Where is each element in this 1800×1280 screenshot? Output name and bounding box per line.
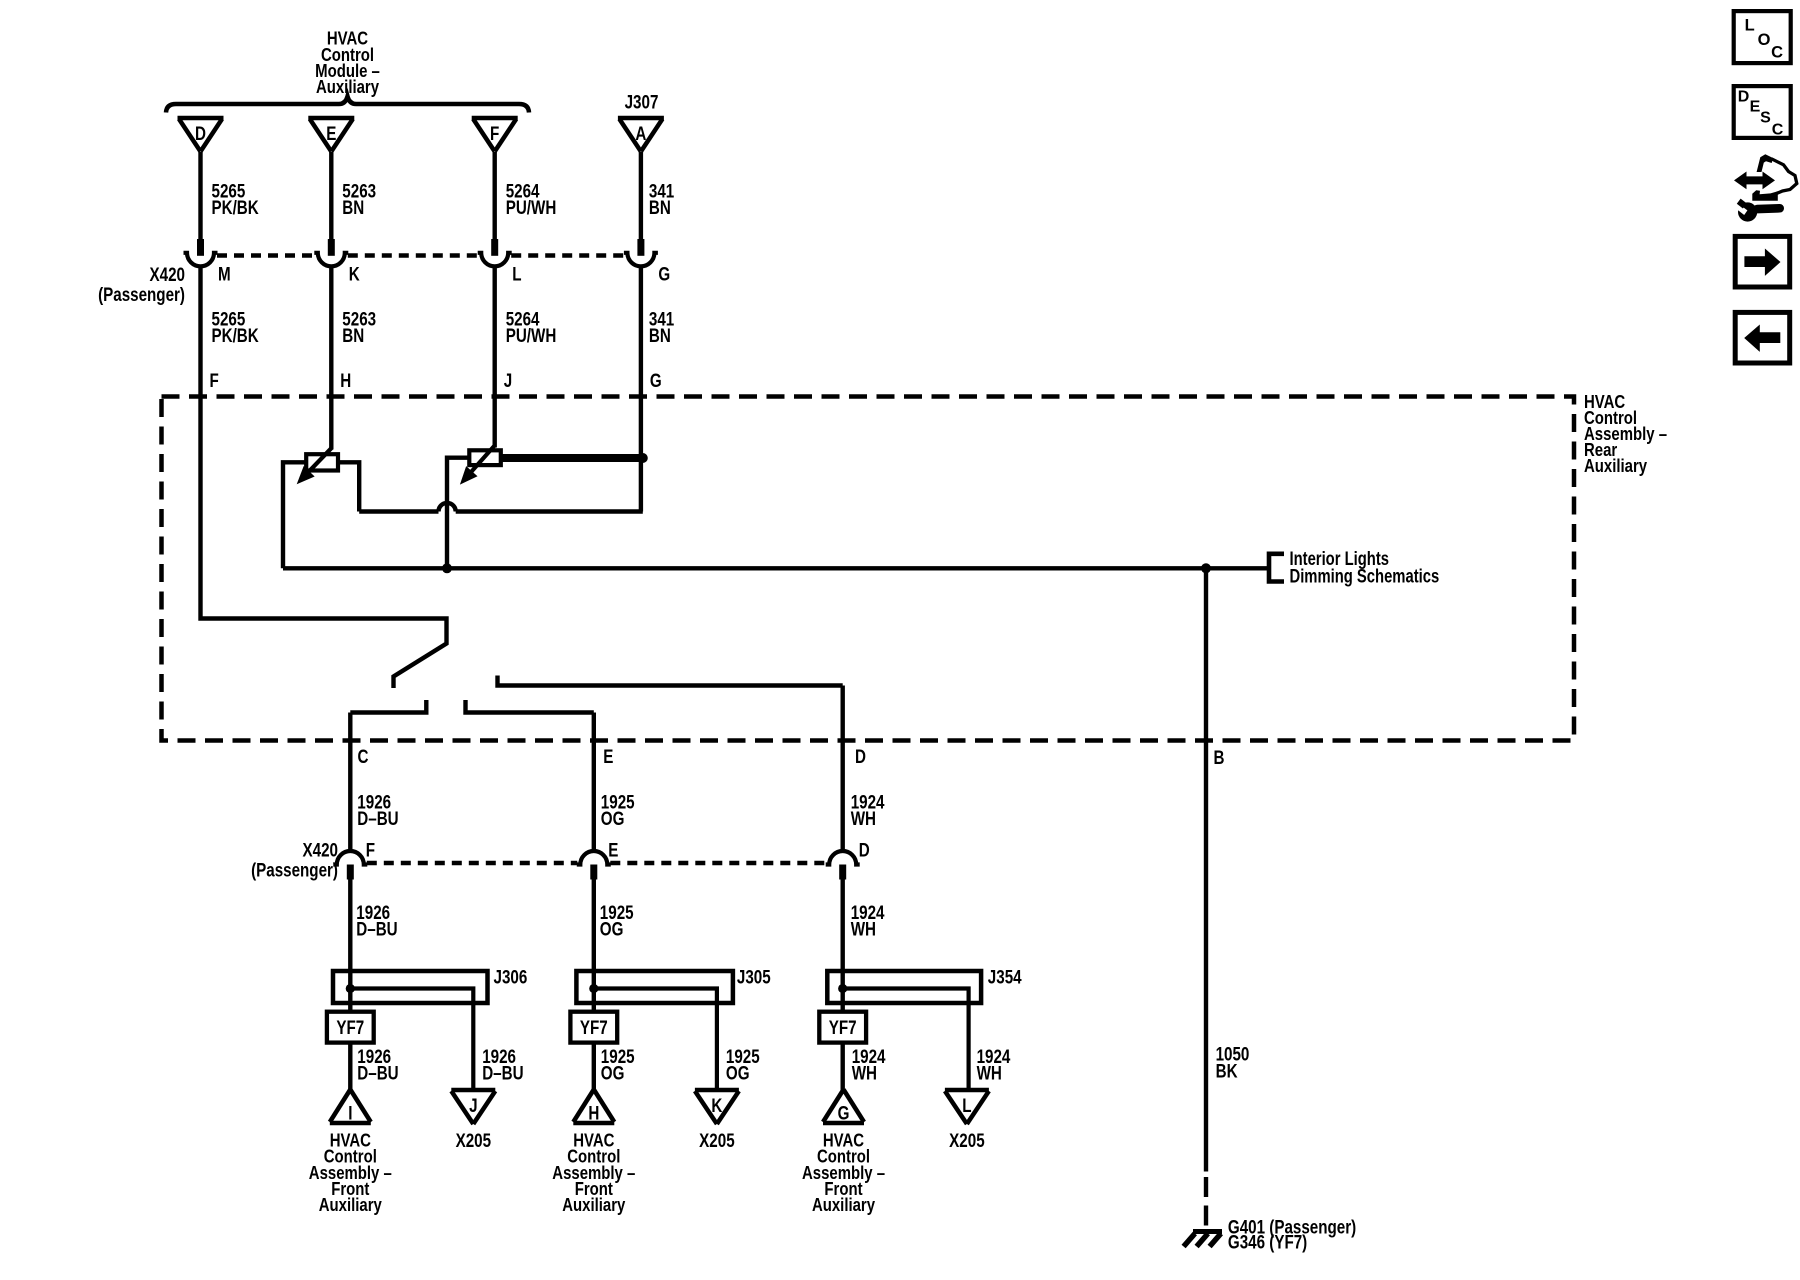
svg-text:H: H [340,369,351,391]
connector X420 lower dashed tie line [367,861,578,865]
wire inside box from pin F [201,397,447,689]
terminal triangle K lower [695,1090,739,1124]
svg-text:X205: X205 [949,1129,985,1151]
svg-text:G: G [658,263,670,285]
junction dot G feed [638,453,648,463]
wire rheostat left to bus [283,462,306,568]
svg-text:BN: BN [649,324,671,346]
svg-text:X205: X205 [699,1129,735,1151]
main wire through J306 [348,971,352,1012]
svg-text:C: C [1771,44,1783,62]
wire 341 BN from A [639,152,643,240]
junction dot B wire [1201,563,1211,573]
splice box J305 [576,971,733,1003]
splice branch wire J354 [843,989,969,1090]
terminal triangle I [330,1090,371,1124]
svg-text:WH: WH [977,1062,1002,1084]
svg-text:YF7: YF7 [580,1016,608,1038]
wire C fan-out [350,700,426,713]
svg-text:OG: OG [726,1062,750,1084]
svg-text:D–BU: D–BU [482,1062,523,1084]
svg-text:E: E [603,745,613,767]
svg-text:K: K [349,263,360,285]
splice box J354 [827,971,981,1003]
svg-text:X420: X420 [303,839,338,861]
svg-text:C: C [1772,121,1784,138]
svg-text:Auxiliary: Auxiliary [812,1195,876,1216]
svg-text:F: F [366,839,375,861]
icon back arrow box [1735,312,1790,363]
wire 1925 to splice [592,879,596,971]
svg-text:BK: BK [1216,1060,1238,1082]
icon repair wrench with arrows [1734,154,1797,221]
option box YF7 [327,1012,374,1043]
svg-text:A: A [635,122,646,144]
svg-text:L: L [962,1094,971,1116]
wire below YF7 [348,1043,352,1090]
svg-text:Dimming Schematics: Dimming Schematics [1290,566,1440,587]
svg-text:Auxiliary: Auxiliary [562,1195,626,1216]
wire from pin G [639,397,643,512]
svg-text:E: E [1750,99,1761,116]
connector X420 terminal L [478,239,512,266]
svg-text:E: E [326,122,336,144]
svg-text:PK/BK: PK/BK [212,324,260,346]
connector X420 terminal K [314,239,348,266]
HVAC Control Assembly Rear Auxiliary dashed box [162,397,1575,741]
svg-text:J305: J305 [737,966,771,988]
junction dot in J306 [346,984,355,993]
main wire through J354 [841,971,845,1012]
svg-text:B: B [1214,746,1225,768]
rheostat element right [469,450,501,465]
svg-text:(Passenger): (Passenger) [251,859,338,881]
wire 5264 PU/WH from F [493,152,497,240]
icon forward arrow box [1735,236,1790,287]
svg-text:OG: OG [601,1062,625,1084]
wire from pin H to rheostat [329,397,333,450]
svg-text:OG: OG [600,918,624,940]
junction dot dimming bus [442,563,452,573]
wire 341 BN lower [639,266,643,396]
wire below YF7 [841,1043,845,1090]
svg-text:D: D [195,122,206,144]
svg-text:E: E [608,839,618,861]
wire below YF7 [592,1043,596,1090]
svg-text:BN: BN [342,324,364,346]
svg-text:WH: WH [851,918,876,940]
svg-text:G346 (YF7): G346 (YF7) [1228,1231,1307,1253]
wire 5264 PU/WH lower [493,266,497,396]
wire 5263 BN from E [329,152,333,240]
svg-text:J: J [504,369,512,391]
wire 5265 PK/BK lower [198,266,202,396]
svg-text:Auxiliary: Auxiliary [1584,456,1648,477]
svg-text:X205: X205 [456,1129,492,1151]
wire E fan-out [466,700,594,713]
svg-text:YF7: YF7 [829,1016,857,1038]
wire 1924 to splice [841,879,845,971]
svg-text:WH: WH [851,807,876,829]
svg-text:PK/BK: PK/BK [212,196,260,218]
svg-text:L: L [512,263,521,285]
svg-text:PU/WH: PU/WH [506,196,557,218]
option box YF7 [819,1012,866,1043]
svg-text:D–BU: D–BU [356,918,397,940]
rheostat element left [306,454,338,470]
svg-text:G: G [838,1102,850,1124]
svg-text:D: D [1738,89,1750,106]
svg-text:H: H [588,1102,599,1124]
connector X420 lower terminal D [826,851,860,879]
wire D fan-out [498,676,843,686]
svg-text:D–BU: D–BU [357,1062,398,1084]
splice branch wire J306 [350,989,473,1090]
connector X420 terminal G [624,239,658,266]
terminal triangle J lower [451,1090,495,1124]
wire B down [1204,568,1208,1171]
svg-text:G: G [650,369,662,391]
svg-text:O: O [1758,31,1771,49]
svg-text:K: K [711,1094,722,1116]
svg-text:I: I [348,1102,352,1124]
svg-text:X420: X420 [150,263,185,285]
bracket interior lights dimming [1269,554,1284,582]
svg-text:PU/WH: PU/WH [506,324,557,346]
terminal triangle F [472,118,518,152]
terminal triangle A [618,118,664,152]
svg-text:F: F [490,122,499,144]
svg-text:J306: J306 [494,966,528,988]
wire cross link with hop [359,509,438,513]
wire from pin J to rheostat [493,397,497,448]
svg-text:F: F [210,369,219,391]
svg-text:C: C [358,745,369,767]
connector X420 lower terminal E [577,851,611,879]
svg-text:BN: BN [342,196,364,218]
splice branch wire J305 [594,989,717,1090]
rheostat wiper arrow right [470,446,494,473]
svg-text:BN: BN [649,196,671,218]
option box YF7 [570,1012,617,1043]
terminal triangle L lower [945,1090,989,1124]
icon LOC box [1734,11,1791,63]
svg-text:J307: J307 [625,91,659,113]
wire rheostat left output [338,462,359,511]
svg-text:S: S [1760,110,1771,127]
splice box J306 [333,971,488,1003]
svg-text:M: M [218,263,231,285]
terminal triangle H lower [573,1090,614,1124]
terminal triangle D [178,118,224,152]
svg-text:D–BU: D–BU [357,807,398,829]
svg-text:D: D [855,745,866,767]
wire 5263 BN lower [329,266,333,396]
wire rheostat right thick feed [501,454,643,462]
wire rheostat right to junction below [447,458,469,569]
svg-text:D: D [859,839,870,861]
svg-text:J354: J354 [988,966,1022,988]
wire 5265 PK/BK from D [198,152,202,240]
svg-text:(Passenger): (Passenger) [98,283,185,305]
svg-text:Auxiliary: Auxiliary [319,1195,383,1216]
connector X420 terminal M [184,239,218,266]
junction dot in J305 [589,984,598,993]
icon DESC box [1734,86,1791,138]
connector X420 lower terminal F [333,851,367,879]
ground G401 G346 chassis symbol [1184,1232,1222,1247]
svg-text:J: J [469,1094,477,1116]
svg-text:YF7: YF7 [336,1016,364,1038]
svg-text:OG: OG [601,807,625,829]
rheostat wiper arrow left [307,448,332,474]
wire 1926 to splice [348,879,352,971]
terminal triangle G lower [823,1090,864,1124]
terminal triangle E [308,118,354,152]
svg-text:L: L [1745,17,1755,35]
connector X420 dashed tie line [217,253,315,257]
svg-text:WH: WH [852,1062,877,1084]
junction dot in J354 [838,984,847,993]
wire B dashed to ground [1204,1177,1208,1232]
brace over terminals D E F [166,97,529,113]
main wire through J305 [592,971,596,1012]
dimming bus wire [283,566,1268,570]
